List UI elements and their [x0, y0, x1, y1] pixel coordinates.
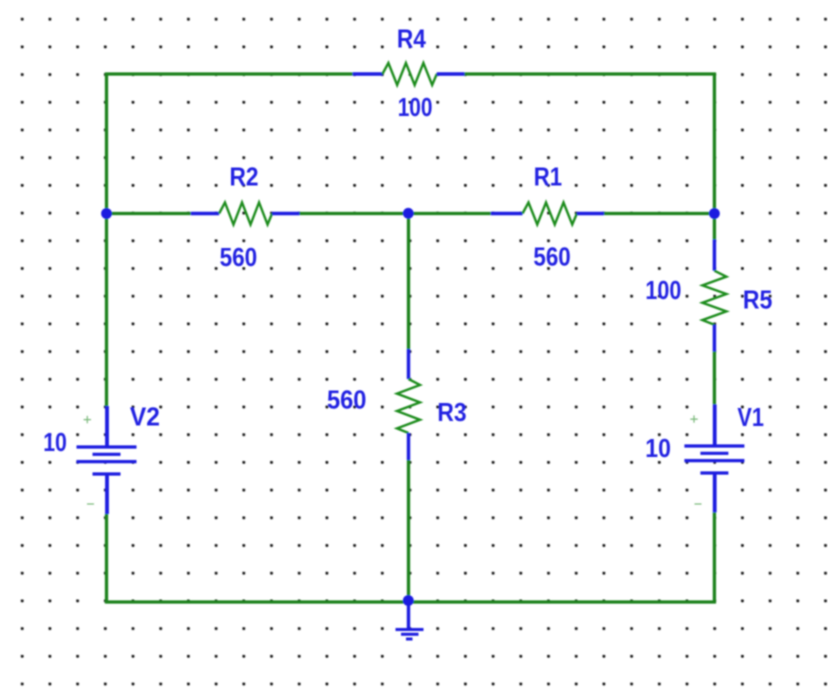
svg-text:560: 560 [327, 385, 366, 415]
wire mid node down to R3 top [407, 214, 410, 350]
resistor R3 [397, 349, 420, 460]
wire R3 bottom to ground node [407, 460, 410, 602]
svg-text:R2: R2 [230, 162, 259, 192]
resistor R2 [191, 203, 300, 225]
resistor R4 [353, 63, 465, 85]
wire mid-left node to R2 left [107, 212, 191, 215]
svg-text:R4: R4 [397, 24, 426, 54]
V2 minus mark [87, 503, 94, 505]
svg-text:560: 560 [533, 242, 570, 272]
V1 minus mark [695, 503, 702, 505]
junction node at left rail / mid wire [101, 208, 112, 219]
svg-text:V2: V2 [130, 401, 160, 431]
V1 plus mark [690, 415, 697, 422]
wire R2 right to R1 left through mid node [300, 212, 491, 215]
wire top-left corner to R4 left [107, 74, 353, 215]
svg-text:10: 10 [645, 433, 671, 463]
wire R5 bottom to V1 top [713, 352, 716, 405]
wire left rail down to V2 [105, 214, 108, 407]
wire R1 right to right rail [604, 212, 714, 215]
battery V1 [684, 404, 744, 512]
junction node at right rail / mid wire [709, 208, 720, 219]
battery V2 [77, 406, 137, 514]
svg-text:V1: V1 [737, 402, 764, 432]
wire R4 right to top-right corner down to R5 [465, 74, 715, 240]
wire V1 bottom to bottom-right corner [409, 512, 715, 602]
junction node at mid wire / R3 branch [403, 208, 414, 219]
junction node at bottom wire / ground [403, 595, 414, 606]
svg-text:R3: R3 [437, 397, 466, 427]
V2 plus mark [84, 416, 91, 423]
wire V2 bottom to bottom-left corner [107, 514, 409, 602]
resistor R5 [702, 240, 726, 352]
ground [396, 601, 424, 640]
svg-text:R1: R1 [534, 162, 562, 192]
resistor R1 [491, 203, 604, 225]
svg-text:100: 100 [645, 275, 681, 305]
svg-text:560: 560 [220, 242, 258, 272]
svg-text:10: 10 [43, 427, 67, 457]
svg-text:R5: R5 [743, 285, 773, 315]
svg-text:100: 100 [398, 92, 433, 122]
